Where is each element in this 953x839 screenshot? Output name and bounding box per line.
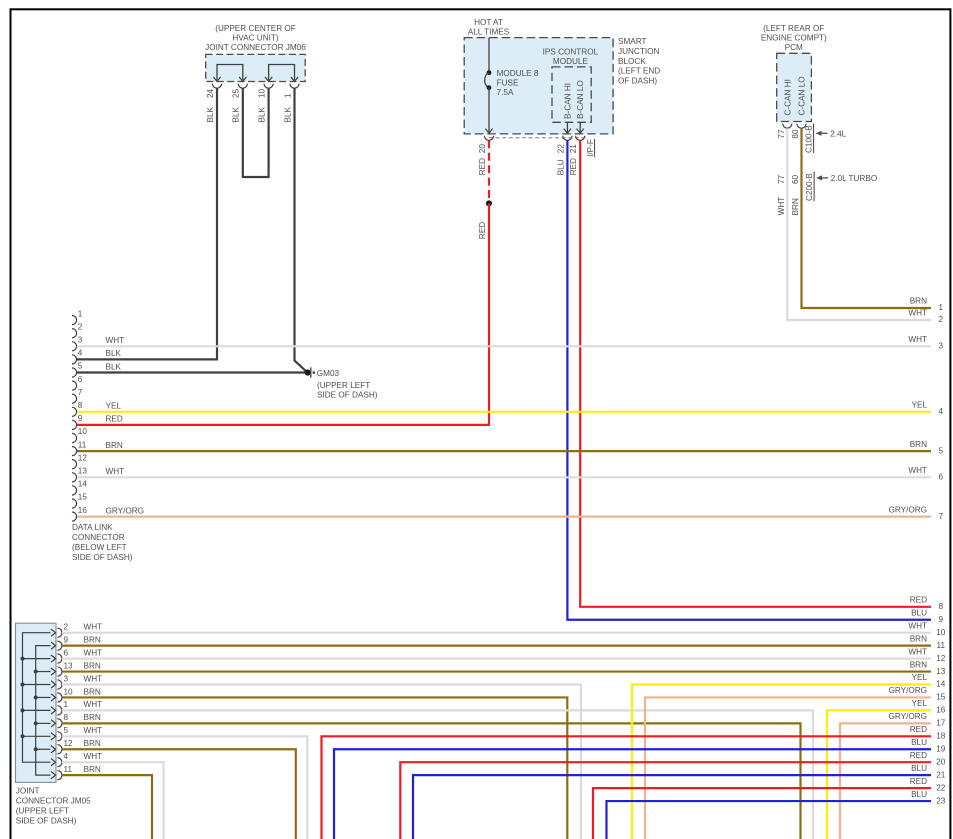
svg-text:BRN: BRN: [84, 765, 101, 774]
svg-text:13: 13: [64, 661, 74, 670]
wire BRN JM05 pin 9: [62, 635, 931, 645]
svg-text:10: 10: [936, 628, 946, 637]
svg-text:HVAC UNIT): HVAC UNIT): [232, 34, 279, 43]
svg-text:GRY/ORG: GRY/ORG: [106, 506, 145, 515]
DLC pin 12: [72, 453, 87, 468]
JM06 internal link pins 24-25: [213, 65, 246, 82]
JM05 internal bus (WHT pins 2,6,3,1,5,4): [21, 629, 56, 766]
svg-text:BLK: BLK: [232, 106, 241, 122]
svg-text:BLOCK: BLOCK: [618, 57, 646, 66]
wire RED fuse output to splice (dashed): [478, 140, 489, 203]
JM06 internal link pins 10-1: [265, 65, 298, 82]
JM06 pin 1: [283, 84, 299, 98]
svg-text:IPS CONTROL: IPS CONTROL: [543, 48, 599, 57]
svg-text:ALL TIMES: ALL TIMES: [468, 27, 510, 36]
wire GRY/ORG net 15: [645, 686, 946, 839]
svg-text:8: 8: [78, 401, 83, 410]
svg-text:BRN: BRN: [84, 687, 101, 696]
svg-text:GRY/ORG: GRY/ORG: [888, 505, 927, 514]
svg-text:5: 5: [939, 446, 944, 455]
svg-text:7: 7: [78, 388, 83, 397]
svg-text:WHT: WHT: [106, 336, 125, 345]
svg-text:13: 13: [78, 467, 88, 476]
svg-text:11: 11: [64, 765, 73, 774]
JM06 pin 25: [232, 84, 248, 98]
svg-text:(UPPER LEFT: (UPPER LEFT: [317, 381, 370, 390]
svg-text:C-CAN LO: C-CAN LO: [798, 76, 807, 115]
wire RED splice to DLC pin 9: [77, 203, 489, 425]
svg-text:10: 10: [78, 427, 88, 436]
svg-text:(LEFT REAR OF: (LEFT REAR OF: [763, 24, 824, 33]
wire BLU B-CAN HI to net 9: [556, 140, 943, 624]
svg-text:FUSE: FUSE: [497, 79, 519, 88]
svg-text:14: 14: [78, 480, 88, 489]
DLC pin color labels: [106, 336, 145, 515]
DLC pin 13: [72, 467, 87, 482]
svg-text:21: 21: [569, 144, 578, 154]
svg-text:GRY/ORG: GRY/ORG: [888, 712, 927, 721]
SJB pin 21: [569, 136, 585, 153]
wire WHT JM05 pin 3: [62, 674, 581, 839]
wire BLK JM06 pin 24 to DLC pin 4: [77, 88, 217, 359]
DLC pin 6: [72, 375, 83, 390]
svg-text:RED: RED: [478, 222, 487, 239]
wire BRN JM05 pin 13: [62, 661, 931, 671]
svg-text:WHT: WHT: [84, 648, 103, 657]
svg-text:RED: RED: [910, 596, 927, 605]
svg-text:5: 5: [78, 362, 83, 371]
svg-text:15: 15: [936, 693, 946, 702]
svg-text:MODULE 8: MODULE 8: [497, 69, 539, 78]
wire BLU net 19: [334, 738, 946, 839]
svg-text:3: 3: [939, 342, 944, 351]
svg-text:2: 2: [78, 322, 83, 331]
svg-text:60: 60: [791, 174, 800, 184]
PCM (box): [777, 53, 812, 121]
svg-text:22: 22: [556, 144, 565, 154]
PCM pin C-CAN HI (77): [777, 79, 792, 138]
DLC pin 11: [72, 440, 87, 455]
DLC pin 2: [72, 322, 83, 337]
svg-text:WHT: WHT: [84, 752, 103, 761]
wire BLK JM06 pin 1 to ground GM03: [283, 88, 307, 372]
SJB pin 20: [478, 136, 494, 153]
label HOT AT ALL TIMES: [468, 18, 510, 37]
JM06 pin 10: [257, 84, 273, 98]
svg-text:4: 4: [78, 349, 83, 358]
svg-text:BLU: BLU: [911, 738, 927, 747]
svg-text:BRN: BRN: [910, 297, 927, 306]
svg-text:RED: RED: [910, 725, 927, 734]
svg-text:WHT: WHT: [908, 647, 927, 656]
svg-text:WHT: WHT: [777, 197, 786, 216]
svg-text:BLK: BLK: [106, 362, 122, 371]
svg-text:SIDE OF DASH): SIDE OF DASH): [16, 816, 77, 825]
svg-text:WHT: WHT: [84, 623, 103, 632]
joint connector JM06 (box): [206, 54, 306, 81]
svg-text:PCM: PCM: [785, 43, 803, 52]
svg-text:20: 20: [936, 757, 946, 766]
wire WHT JM05 pin 5: [62, 726, 307, 839]
svg-text:1: 1: [283, 93, 292, 98]
svg-text:12: 12: [64, 739, 74, 748]
svg-text:3: 3: [64, 674, 69, 683]
svg-text:RED: RED: [478, 158, 487, 175]
svg-text:9: 9: [939, 615, 944, 624]
JM05 pin 4: [57, 752, 68, 767]
smart junction block label: [618, 37, 660, 86]
svg-text:CONNECTOR: CONNECTOR: [72, 533, 125, 542]
svg-text:GM03: GM03: [317, 369, 340, 378]
svg-text:RED: RED: [910, 777, 927, 786]
JM05 pin 1: [57, 700, 68, 715]
svg-text:4: 4: [939, 407, 944, 416]
svg-text:10: 10: [257, 88, 266, 98]
svg-text:JOINT: JOINT: [16, 786, 40, 795]
wire BRN JM05 pin 8: [62, 713, 801, 839]
svg-text:(UPPER CENTER OF: (UPPER CENTER OF: [215, 24, 296, 33]
svg-text:12: 12: [78, 453, 88, 462]
JM05 pin 3: [57, 674, 68, 689]
svg-text:11: 11: [78, 440, 87, 449]
DLC pin 10: [72, 427, 87, 442]
DLC pin 1: [72, 309, 83, 324]
svg-text:C-CAN HI: C-CAN HI: [783, 79, 792, 115]
svg-text:WHT: WHT: [908, 309, 927, 318]
svg-text:B-CAN LO: B-CAN LO: [576, 80, 585, 119]
wire WHT DLC pin 3 to net 3: [77, 335, 944, 351]
svg-text:RED: RED: [569, 158, 578, 175]
svg-text:6: 6: [78, 375, 83, 384]
wire BRN JM05 pin 12: [62, 739, 296, 839]
svg-text:9: 9: [64, 635, 69, 644]
svg-text:(UPPER LEFT: (UPPER LEFT: [16, 806, 69, 815]
PCM pin C-CAN LO (80): [791, 76, 806, 138]
wire WHT JM05 pin 6: [62, 648, 931, 658]
wire RED net 18: [322, 725, 946, 839]
svg-text:BRN: BRN: [84, 713, 101, 722]
wire BLU net 21: [413, 764, 946, 839]
svg-text:BLU: BLU: [911, 790, 927, 799]
DLC pin 16: [72, 506, 87, 521]
svg-text:2: 2: [64, 623, 69, 632]
DLC pin 9: [72, 414, 83, 429]
svg-text:21: 21: [936, 770, 946, 779]
svg-text:SMART: SMART: [618, 37, 647, 46]
JM05 pin 6: [57, 648, 68, 663]
svg-text:C100-B: C100-B: [805, 125, 814, 153]
wire WHT JM05 pin 2: [62, 623, 931, 633]
JM05 pin 11: [57, 765, 72, 780]
svg-text:1: 1: [78, 309, 83, 318]
svg-text:15: 15: [78, 493, 88, 502]
svg-text:BLU: BLU: [911, 608, 927, 617]
svg-text:YEL: YEL: [912, 401, 928, 410]
svg-text:SIDE OF DASH): SIDE OF DASH): [317, 391, 378, 400]
smart junction block (box): [464, 38, 613, 134]
JM05 pin 8: [57, 713, 68, 728]
svg-text:RED: RED: [106, 415, 123, 424]
svg-text:BRN: BRN: [791, 198, 800, 215]
wire WHT JM05 pin 1: [62, 700, 813, 839]
svg-text:17: 17: [936, 719, 946, 728]
svg-text:(BELOW LEFT: (BELOW LEFT: [72, 543, 127, 552]
svg-text:I/P-F: I/P-F: [586, 139, 595, 157]
JM05 pin 2: [57, 623, 68, 638]
svg-text:9: 9: [78, 414, 83, 423]
svg-text:7: 7: [939, 512, 944, 521]
DLC pin 5: [72, 362, 83, 377]
svg-text:WHT: WHT: [84, 700, 103, 709]
JM05 pin 5: [57, 726, 68, 741]
splice on RED wire: [486, 200, 492, 206]
svg-text:1: 1: [64, 700, 69, 709]
svg-text:C200-B: C200-B: [805, 173, 814, 201]
svg-text:3: 3: [78, 336, 83, 345]
svg-text:24: 24: [206, 88, 215, 98]
wire WHT DLC pin 13 to net 6: [77, 466, 944, 482]
DLC pin 7: [72, 388, 83, 403]
svg-text:10: 10: [64, 687, 74, 696]
wire BRN JM05 pin 11: [62, 765, 152, 839]
svg-text:CONNECTOR JM05: CONNECTOR JM05: [16, 796, 91, 805]
svg-text:B-CAN HI: B-CAN HI: [563, 83, 572, 119]
DLC pin 3: [72, 336, 83, 351]
svg-text:WHT: WHT: [908, 466, 927, 475]
wire RED B-CAN LO to net 8: [569, 140, 943, 611]
joint connector JM05 label: [16, 786, 91, 825]
svg-text:14: 14: [936, 680, 946, 689]
svg-text:MODULE: MODULE: [553, 57, 589, 66]
wire RED net 22: [593, 777, 946, 839]
svg-text:16: 16: [936, 706, 946, 715]
svg-text:2.4L: 2.4L: [830, 129, 846, 138]
svg-text:OF DASH): OF DASH): [618, 77, 657, 86]
svg-text:WHT: WHT: [106, 467, 125, 476]
DLC pin 15: [72, 493, 87, 508]
svg-text:WHT: WHT: [908, 621, 927, 630]
JM05 internal bus (BRN pins 9,13,10,8,12,11): [34, 642, 56, 779]
wire YEL net 16: [827, 699, 946, 839]
JM05 pin 9: [57, 635, 68, 650]
IPS pin B-CAN HI: [563, 83, 572, 133]
svg-text:BLK: BLK: [257, 106, 266, 122]
PCM title label: [761, 24, 827, 52]
JM06 pin 24: [206, 84, 222, 98]
svg-text:BRN: BRN: [84, 635, 101, 644]
svg-text:BRN: BRN: [84, 739, 101, 748]
wire BRN JM05 pin 10: [62, 687, 567, 839]
wire WHT JM05 pin 4: [62, 752, 164, 839]
svg-text:4: 4: [64, 752, 69, 761]
svg-text:YEL: YEL: [106, 402, 122, 411]
wire WHT C-CAN HI to net 2: [777, 128, 944, 324]
JM05 pin 12: [57, 739, 73, 754]
svg-text:2: 2: [939, 315, 944, 324]
wire YEL net 14: [632, 673, 946, 839]
svg-text:18: 18: [936, 732, 946, 741]
svg-text:WHT: WHT: [84, 726, 103, 735]
svg-text:2.0L TURBO: 2.0L TURBO: [831, 174, 877, 183]
svg-text:WHT: WHT: [908, 335, 927, 344]
svg-text:HOT AT: HOT AT: [474, 18, 503, 27]
connector I/P-F label: [586, 139, 595, 157]
svg-text:23: 23: [936, 796, 946, 805]
ground GM03: [305, 367, 378, 399]
svg-text:BRN: BRN: [106, 441, 123, 450]
svg-text:YEL: YEL: [912, 673, 928, 682]
svg-text:22: 22: [936, 783, 946, 792]
svg-text:JUNCTION: JUNCTION: [618, 47, 659, 56]
svg-text:BLK: BLK: [106, 349, 122, 358]
DLC pin 8: [72, 401, 83, 416]
DLC pin 14: [72, 480, 87, 495]
SJB pin 22: [556, 136, 572, 153]
svg-text:13: 13: [936, 667, 946, 676]
svg-text:77: 77: [777, 129, 786, 139]
svg-text:11: 11: [937, 641, 946, 650]
svg-text:GRY/ORG: GRY/ORG: [888, 686, 927, 695]
svg-text:BLK: BLK: [206, 106, 215, 122]
svg-text:77: 77: [777, 174, 786, 184]
DLC pin 4: [72, 349, 83, 364]
svg-text:80: 80: [791, 129, 800, 139]
svg-text:YEL: YEL: [912, 699, 928, 708]
wire RED net 20: [400, 751, 945, 839]
svg-text:7.5A: 7.5A: [497, 88, 514, 97]
fuse MODULE 8 7.5A: [485, 38, 539, 134]
svg-text:BRN: BRN: [910, 440, 927, 449]
wire BLK JM06 pin 25 to JM06 pin 10: [232, 88, 269, 177]
data link connector label: [72, 523, 133, 562]
wire BLK DLC pin 5 to ground GM03: [77, 371, 306, 373]
connector I/P-F dashed link: [489, 137, 588, 139]
svg-text:(LEFT END: (LEFT END: [618, 67, 660, 76]
svg-text:6: 6: [939, 473, 944, 482]
svg-text:BLU: BLU: [556, 159, 565, 175]
JM05 pin 10: [57, 687, 73, 702]
svg-text:JOINT CONNECTOR JM06: JOINT CONNECTOR JM06: [205, 43, 306, 52]
wire GRY/ORG net 17: [840, 712, 946, 839]
connector C200-B callout (2.0L TURBO): [777, 172, 877, 202]
svg-text:12: 12: [936, 654, 946, 663]
wire YEL DLC pin 8 to net 4: [77, 401, 944, 417]
IPS control module (box): [552, 67, 591, 122]
svg-text:1: 1: [939, 303, 944, 312]
IPS control module label: [543, 48, 599, 67]
wire BRN DLC pin 11 to net 5: [77, 440, 944, 456]
wire BRN C-CAN LO to net 1: [791, 128, 943, 312]
svg-text:BRN: BRN: [910, 634, 927, 643]
svg-text:8: 8: [64, 713, 69, 722]
wire BLU net 23: [607, 790, 946, 839]
svg-text:6: 6: [64, 648, 69, 657]
connector C100-B callout (2.4L): [805, 124, 847, 154]
svg-text:BRN: BRN: [84, 661, 101, 670]
svg-text:ENGINE COMPT): ENGINE COMPT): [761, 34, 827, 43]
svg-text:5: 5: [64, 726, 69, 735]
svg-text:SIDE OF DASH): SIDE OF DASH): [72, 553, 133, 562]
JM06 title label: [205, 24, 306, 52]
wire GRY/ORG DLC pin 16 to net 7: [77, 505, 944, 521]
svg-text:20: 20: [478, 144, 487, 154]
svg-text:19: 19: [936, 744, 946, 753]
svg-text:25: 25: [232, 88, 241, 98]
svg-text:WHT: WHT: [84, 674, 103, 683]
svg-text:DATA LINK: DATA LINK: [72, 523, 113, 532]
svg-text:8: 8: [939, 602, 944, 611]
IPS pin B-CAN LO: [576, 80, 585, 133]
svg-text:BRN: BRN: [910, 660, 927, 669]
joint connector JM05 (box): [16, 623, 57, 782]
svg-text:16: 16: [78, 506, 88, 515]
svg-text:BLK: BLK: [283, 106, 292, 122]
JM05 pin 13: [57, 661, 73, 676]
svg-text:RED: RED: [910, 751, 927, 760]
svg-text:BLU: BLU: [911, 764, 927, 773]
